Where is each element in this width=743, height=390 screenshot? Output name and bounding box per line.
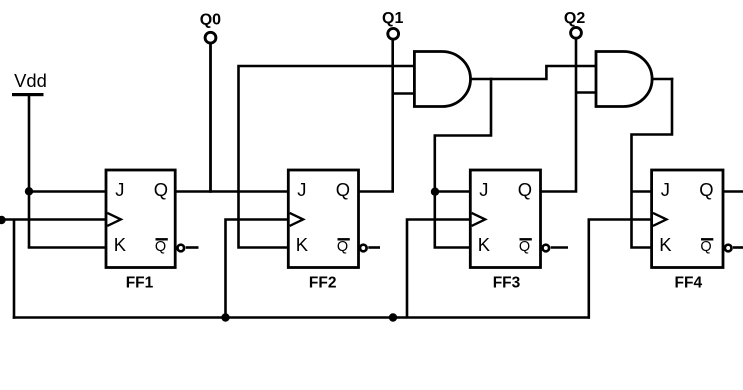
svg-text:Q: Q xyxy=(519,239,530,255)
wire CLK to FF1 clock xyxy=(0,218,107,221)
clock triangle xyxy=(653,213,667,226)
wire FF1 Qbar stub xyxy=(186,246,199,249)
inversion bubble FF2 Qbar xyxy=(360,245,367,252)
wire FF2.Q to Q1 riser xyxy=(358,39,393,192)
svg-text:Q: Q xyxy=(700,239,711,255)
wire Vdd stem to J1/K1 xyxy=(28,95,31,248)
wire AND1 output to AND2 input xyxy=(491,66,597,79)
clock triangle xyxy=(290,213,304,226)
wire FF1.Q to FF2.J (Q0 net) xyxy=(174,190,289,193)
inversion bubble FF1 Qbar xyxy=(178,245,185,252)
wire AND1 output to FF3 J/K xyxy=(435,78,491,248)
wire FF4 clock xyxy=(589,220,652,319)
svg-text:J: J xyxy=(297,179,306,200)
flip-flop FF3 xyxy=(470,170,540,268)
wire AND2 output to FF4 J/K xyxy=(632,78,673,248)
flip-flop FF4 xyxy=(652,170,723,268)
wire K1 xyxy=(28,246,107,249)
svg-text:K: K xyxy=(478,234,491,255)
svg-text:Q: Q xyxy=(337,239,348,255)
flip-flop FF2 xyxy=(288,170,358,268)
wire FF4.Q output xyxy=(722,190,743,193)
wire Q0 net to AND1 input and FF2.K xyxy=(239,66,416,248)
svg-text:FF3: FF3 xyxy=(493,274,521,291)
svg-text:Q: Q xyxy=(699,179,713,200)
wire CLK branch down xyxy=(13,220,16,319)
wire FF3 clock xyxy=(407,220,471,318)
svg-text:FF1: FF1 xyxy=(126,274,154,291)
svg-text:Q: Q xyxy=(154,179,168,200)
svg-text:J: J xyxy=(115,179,124,200)
clock input terminal dot xyxy=(0,216,6,224)
svg-text:K: K xyxy=(114,234,127,255)
svg-text:J: J xyxy=(661,179,670,200)
wire Q1 tap to AND1 input xyxy=(393,92,415,95)
wire FF3.Q to Q2 riser xyxy=(540,38,576,192)
power symbol Vdd xyxy=(12,70,47,96)
wire AND1 output stub xyxy=(471,78,493,81)
svg-text:Q0: Q0 xyxy=(200,12,221,29)
svg-text:Q2: Q2 xyxy=(564,10,585,27)
terminal Q0 xyxy=(200,12,221,43)
wire Q0 riser xyxy=(209,43,212,193)
wire AND2 output stub xyxy=(652,78,673,81)
AND gate G1 xyxy=(414,52,470,107)
svg-text:Q1: Q1 xyxy=(382,10,403,27)
svg-text:Q: Q xyxy=(518,179,532,200)
terminal Q1 xyxy=(382,10,403,39)
clock triangle xyxy=(472,213,486,226)
svg-text:J: J xyxy=(479,179,488,200)
svg-text:K: K xyxy=(296,234,309,255)
junction dot bus (near FF3 clock riser) xyxy=(389,313,397,321)
svg-text:FF2: FF2 xyxy=(309,274,337,291)
wire J1 xyxy=(29,190,107,193)
junction dot bus/FF2 clock xyxy=(221,313,229,321)
wire clock bus xyxy=(13,316,590,319)
inversion bubble FF3 Qbar xyxy=(543,245,550,252)
junction dot Vdd/J1 xyxy=(25,187,33,195)
terminal Q2 xyxy=(564,10,585,38)
wire FF2 clock xyxy=(226,220,290,318)
junction dot AND1/FF3.J xyxy=(431,188,439,196)
wire Q2 tap to AND2 input xyxy=(576,91,597,94)
flip-flop FF1 xyxy=(106,170,175,268)
inversion bubble FF4 Qbar xyxy=(725,245,732,252)
svg-text:Vdd: Vdd xyxy=(14,70,47,91)
wire FF3.J xyxy=(435,190,471,193)
wire FF3 Qbar stub xyxy=(551,246,568,249)
svg-text:FF4: FF4 xyxy=(675,274,703,291)
wire FF2 Qbar stub xyxy=(368,246,380,249)
svg-text:Q: Q xyxy=(336,179,350,200)
svg-text:K: K xyxy=(659,234,672,255)
clock triangle xyxy=(107,213,121,226)
AND gate G2 xyxy=(596,52,652,107)
wire FF4.J xyxy=(632,190,653,193)
wire FF4 Qbar stub xyxy=(733,246,743,249)
svg-text:Q: Q xyxy=(155,239,166,255)
